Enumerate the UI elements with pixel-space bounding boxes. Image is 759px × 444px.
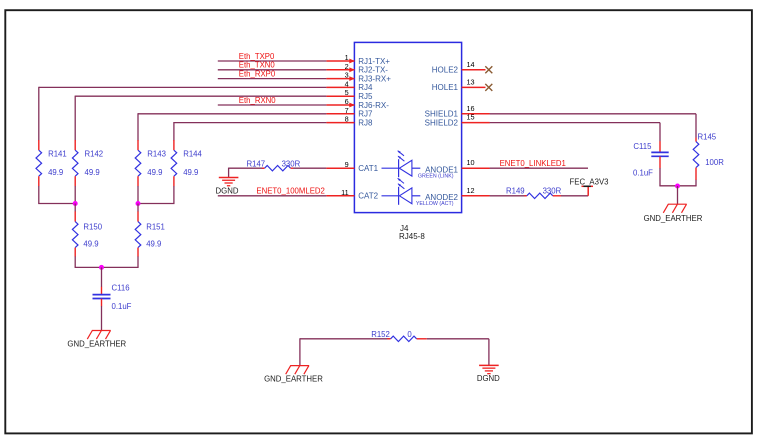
svg-text:R151: R151 (146, 222, 165, 231)
LED green (link) inside J4 (382, 150, 421, 177)
svg-text:49.9: 49.9 (85, 168, 100, 177)
svg-text:CAT1: CAT1 (358, 164, 378, 173)
pin 6 RJ6-RX- stub+number+name (326, 97, 389, 110)
wire SHIELD2 to C115 (490, 123, 660, 142)
LED yellow (act) inside J4 (382, 178, 421, 205)
svg-text:HOLE2: HOLE2 (432, 66, 459, 75)
svg-text:HOLE1: HOLE1 (432, 83, 459, 92)
svg-text:15: 15 (467, 113, 475, 122)
wire DGND1 to R147 (229, 168, 265, 178)
svg-text:0.1uF: 0.1uF (112, 302, 132, 311)
svg-text:Eth_RXN0: Eth_RXN0 (239, 96, 277, 105)
svg-text:3: 3 (345, 71, 349, 80)
svg-text:49.9: 49.9 (83, 240, 98, 249)
label J4 refdes (399, 224, 425, 241)
wire pin 4 to resistor column x=38.8 (39, 87, 327, 141)
svg-text:Eth_RXP0: Eth_RXP0 (239, 69, 276, 78)
svg-text:R143: R143 (147, 149, 166, 158)
wire R143 bottom (137, 186, 139, 204)
ground DGND bottom (479, 365, 499, 373)
resistor R143 49.9 (135, 140, 166, 186)
svg-text:RJ8: RJ8 (358, 118, 373, 127)
svg-text:6: 6 (345, 97, 349, 106)
ground GND_EARTHER under C116 (87, 331, 110, 340)
junction node shield RC (675, 184, 680, 189)
svg-text:GREEN (LINK): GREEN (LINK) (418, 174, 454, 180)
svg-text:11: 11 (341, 188, 349, 197)
capacitor C116 0.1uF (93, 284, 132, 312)
svg-text:4: 4 (345, 79, 349, 88)
svg-text:49.9: 49.9 (146, 240, 161, 249)
net label Eth_TXN0 (239, 61, 276, 70)
svg-text:R150: R150 (83, 222, 102, 231)
svg-text:5: 5 (345, 88, 349, 97)
svg-text:RJ3-RX+: RJ3-RX+ (358, 74, 391, 83)
RJ45 connector U-box J4 outline (354, 42, 461, 212)
resistor R149 330R (506, 187, 562, 199)
svg-text:9: 9 (345, 160, 349, 169)
wire pin 5 to resistor column x=75.2 (75, 96, 326, 141)
junction node C116 top (99, 265, 104, 270)
power symbol FEC_A3V3 (570, 178, 609, 196)
svg-text:12: 12 (467, 186, 475, 195)
pin 9 CAT1 stub (326, 160, 378, 173)
pin 4 RJ4 stub+number+name (326, 79, 373, 92)
ground DGND near R147 (219, 178, 239, 186)
svg-text:R141: R141 (48, 149, 67, 158)
svg-text:R149: R149 (506, 187, 525, 196)
pin 11 CAT2 stub (326, 188, 378, 201)
svg-text:14: 14 (467, 60, 475, 69)
svg-text:Eth_TXN0: Eth_TXN0 (239, 61, 276, 70)
svg-text:RJ2-TX-: RJ2-TX- (358, 66, 388, 75)
svg-text:13: 13 (467, 77, 475, 86)
net label Eth_TXP0 (239, 52, 275, 61)
svg-text:DGND: DGND (216, 186, 239, 195)
svg-text:R152: R152 (371, 330, 390, 339)
pin 2 RJ2-TX- stub+number+name (326, 62, 388, 75)
junction node R142/R150 (73, 201, 78, 206)
svg-text:8: 8 (345, 115, 349, 124)
svg-text:330R: 330R (282, 160, 301, 169)
resistor R144 49.9 (171, 140, 202, 186)
wire R150/R151 bottom bus (75, 256, 139, 267)
svg-text:YELLOW (ACT): YELLOW (ACT) (416, 201, 454, 207)
capacitor C115 0.1uF (633, 141, 669, 177)
label DGND near R147 (216, 186, 239, 195)
svg-text:RJ5: RJ5 (358, 92, 373, 101)
wire C115 bottom (659, 168, 661, 186)
resistor R142 49.9 (72, 140, 103, 186)
wire R149 to FEC_A3V3 (561, 195, 588, 197)
svg-text:RJ7: RJ7 (358, 110, 373, 119)
svg-text:ENET0_100MLED2: ENET0_100MLED2 (256, 187, 324, 196)
resistor R152 0 (371, 330, 427, 342)
wire C116 to ground (101, 306, 103, 331)
net label ENET0_LINKLED1 (500, 159, 566, 168)
wire R152 to DGND (427, 339, 489, 366)
wire net Eth_TXN0 to pin 2 (218, 69, 327, 71)
resistor R151 49.9 (135, 204, 165, 257)
svg-text:49.9: 49.9 (147, 168, 162, 177)
svg-text:0: 0 (407, 330, 412, 339)
pin 7 RJ7 stub+number+name (326, 106, 373, 119)
wire junction to C116 (101, 267, 103, 287)
wire pin 7 to resistor column x=138.0 (138, 113, 326, 140)
wire R141 bottom to bus (38, 186, 76, 204)
ground GND_EARTHER bottom (286, 366, 309, 375)
pin 14 HOLE2 no-connect X (432, 60, 493, 75)
label ANODE1 / GREEN (LINK) (418, 165, 459, 179)
svg-text:ENET0_LINKLED1: ENET0_LINKLED1 (500, 159, 566, 168)
resistor R145 100R (693, 133, 724, 180)
wire R147 to pin 9 (293, 167, 326, 169)
wire net ENET0_100MLED2 to pin 11 (218, 195, 327, 197)
svg-text:FEC_A3V3: FEC_A3V3 (570, 178, 609, 187)
pin 15 SHIELD2 stub (425, 113, 490, 128)
svg-text:R142: R142 (85, 149, 104, 158)
label DGND bottom (477, 374, 500, 383)
pin 5 RJ5 stub+number+name (326, 88, 373, 101)
junction node R143/R151 (136, 201, 141, 206)
label GND_EARTHER under C116 (67, 339, 126, 348)
svg-text:RJ6-RX-: RJ6-RX- (358, 101, 389, 110)
pin 13 HOLE1 no-connect X (432, 77, 493, 92)
net label ENET0_100MLED2 (256, 187, 324, 196)
svg-text:RJ1-TX+: RJ1-TX+ (358, 57, 390, 66)
svg-text:R147: R147 (247, 160, 266, 169)
svg-text:0.1uF: 0.1uF (633, 169, 653, 178)
svg-text:R145: R145 (698, 133, 717, 142)
wire R145 bottom bus (659, 180, 696, 186)
svg-text:CAT2: CAT2 (358, 192, 378, 201)
svg-text:16: 16 (467, 104, 475, 113)
pin 10 stub (462, 158, 490, 168)
wire net Eth_TXP0 to pin 1 (218, 60, 327, 62)
svg-text:10: 10 (467, 158, 475, 167)
net label Eth_RXP0 (239, 69, 276, 78)
wire net ENET0_LINKLED1 (490, 167, 588, 169)
svg-text:GND_EARTHER: GND_EARTHER (264, 375, 323, 384)
wire junction to right ground (677, 186, 679, 204)
pin 1 RJ1-TX+ stub+number+name (326, 53, 390, 66)
svg-text:Eth_TXP0: Eth_TXP0 (239, 52, 275, 61)
label GND_EARTHER bottom (264, 375, 323, 384)
pin 8 RJ8 stub+number+name (326, 115, 373, 128)
wire R144 bottom to bus (137, 186, 174, 204)
label GND_EARTHER right (644, 214, 703, 223)
resistor R147 330R (247, 160, 301, 171)
svg-text:1: 1 (345, 53, 349, 62)
svg-text:330R: 330R (543, 187, 562, 196)
svg-text:RJ45-8: RJ45-8 (399, 232, 425, 241)
wire GND_EARTHER to R152 (300, 338, 390, 365)
wire pin 8 to resistor column x=173.9 (174, 122, 327, 141)
svg-text:GND_EARTHER: GND_EARTHER (644, 214, 703, 223)
svg-text:R144: R144 (183, 149, 202, 158)
svg-text:SHIELD1: SHIELD1 (425, 110, 459, 119)
resistor R141 49.9 (36, 140, 67, 186)
pin 16 SHIELD1 stub (425, 104, 490, 119)
label ANODE2 / YELLOW (ACT) (416, 193, 459, 207)
svg-text:C116: C116 (112, 284, 130, 293)
wire pin 12 to R149 (490, 195, 527, 197)
pin 12 stub (462, 186, 490, 196)
pin 3 RJ3-RX+ stub+number+name (326, 71, 391, 84)
svg-text:SHIELD2: SHIELD2 (425, 118, 459, 127)
svg-text:RJ4: RJ4 (358, 83, 373, 92)
net label Eth_RXN0 (239, 96, 277, 105)
svg-text:GND_EARTHER: GND_EARTHER (67, 339, 126, 348)
wire net Eth_RXN0 to pin 6 (218, 104, 327, 106)
svg-text:49.9: 49.9 (48, 168, 63, 177)
svg-text:49.9: 49.9 (183, 168, 198, 177)
wire SHIELD1 to R145 (490, 114, 696, 138)
svg-text:7: 7 (345, 106, 349, 115)
wire net Eth_RXP0 to pin 3 (218, 78, 327, 80)
svg-text:DGND: DGND (477, 374, 500, 383)
svg-text:C115: C115 (633, 142, 652, 151)
ground GND_EARTHER right (663, 204, 686, 213)
svg-text:2: 2 (345, 62, 349, 71)
wire R142 bottom (74, 186, 76, 204)
resistor R150 49.9 (72, 204, 102, 257)
svg-text:100R: 100R (705, 158, 724, 167)
